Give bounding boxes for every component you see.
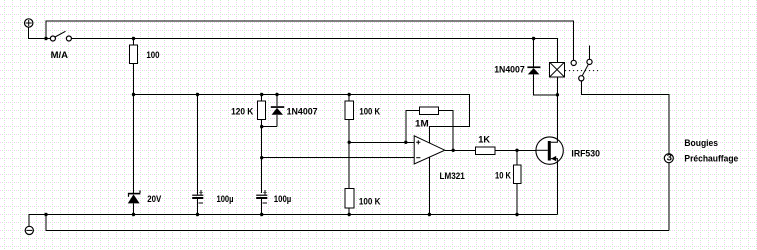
svg-text:M/A: M/A [51, 50, 68, 61]
svg-text:10 K: 10 K [495, 171, 511, 182]
svg-text:Préchauffage: Préchauffage [684, 154, 738, 165]
svg-text:100µ: 100µ [274, 194, 292, 205]
svg-text:Bougies: Bougies [684, 138, 718, 149]
svg-text:1N4007: 1N4007 [494, 64, 525, 75]
svg-text:100 K: 100 K [359, 196, 381, 207]
svg-text:3: 3 [667, 153, 672, 164]
svg-text:1N4007: 1N4007 [287, 107, 318, 118]
svg-text:1M: 1M [415, 119, 429, 130]
svg-text:120 K: 120 K [231, 107, 253, 118]
svg-text:1K: 1K [478, 134, 490, 145]
svg-text:100 K: 100 K [359, 107, 380, 118]
svg-text:20V: 20V [147, 194, 161, 205]
svg-text:100: 100 [146, 50, 159, 61]
svg-text:LM321: LM321 [440, 171, 466, 182]
svg-text:IRF530: IRF530 [571, 148, 600, 159]
svg-text:100µ: 100µ [217, 194, 234, 205]
